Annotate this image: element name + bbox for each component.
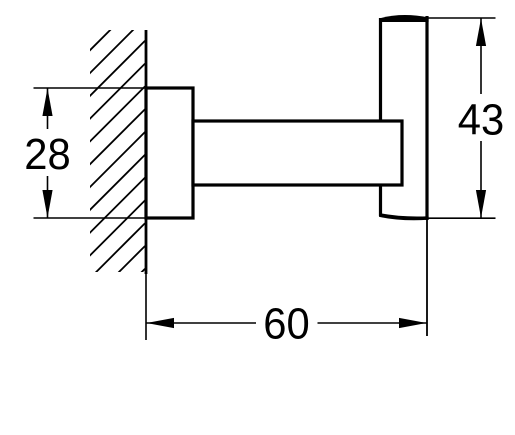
arrow 28 up: [42, 88, 52, 116]
arrow 43 down: [476, 190, 486, 218]
extension line top (43 dim): [428, 17, 496, 19]
arrow 28 down: [42, 190, 52, 218]
extension line top (28 dim): [34, 87, 151, 89]
dimension 60 line right segment: [318, 322, 428, 324]
dimension 43 line lower segment: [480, 141, 482, 218]
mounting plate: [146, 88, 193, 218]
extension line bottom (43 dim): [428, 217, 496, 219]
hook end plate right edge: [425, 16, 428, 220]
dimension 43 line upper segment: [480, 18, 482, 94]
label 28: [24, 130, 70, 179]
dimension 28 line lower segment: [47, 176, 49, 218]
hook end plate bottom cap: [379, 213, 429, 220]
wall surface line: [145, 30, 148, 274]
arm: [193, 121, 402, 185]
svg-text:43: 43: [458, 96, 504, 145]
dimension 28 line upper segment: [47, 88, 49, 129]
arrow 60 left: [147, 318, 175, 328]
arrow 43 up: [476, 19, 486, 47]
svg-text:60: 60: [263, 300, 309, 349]
extension line left (60 dim): [145, 272, 147, 340]
extension line bottom (28 dim): [34, 217, 151, 219]
svg-text:28: 28: [24, 130, 70, 179]
arrow 60 right: [399, 318, 427, 328]
hook end plate left edge: [379, 18, 382, 216]
label 43: [458, 96, 504, 145]
dimension 60 line left segment: [146, 322, 256, 324]
label 60: [263, 300, 309, 349]
wall hatching: [60, 0, 190, 354]
extension line right (60 dim): [426, 220, 428, 336]
hook end plate top cap: [379, 15, 429, 22]
